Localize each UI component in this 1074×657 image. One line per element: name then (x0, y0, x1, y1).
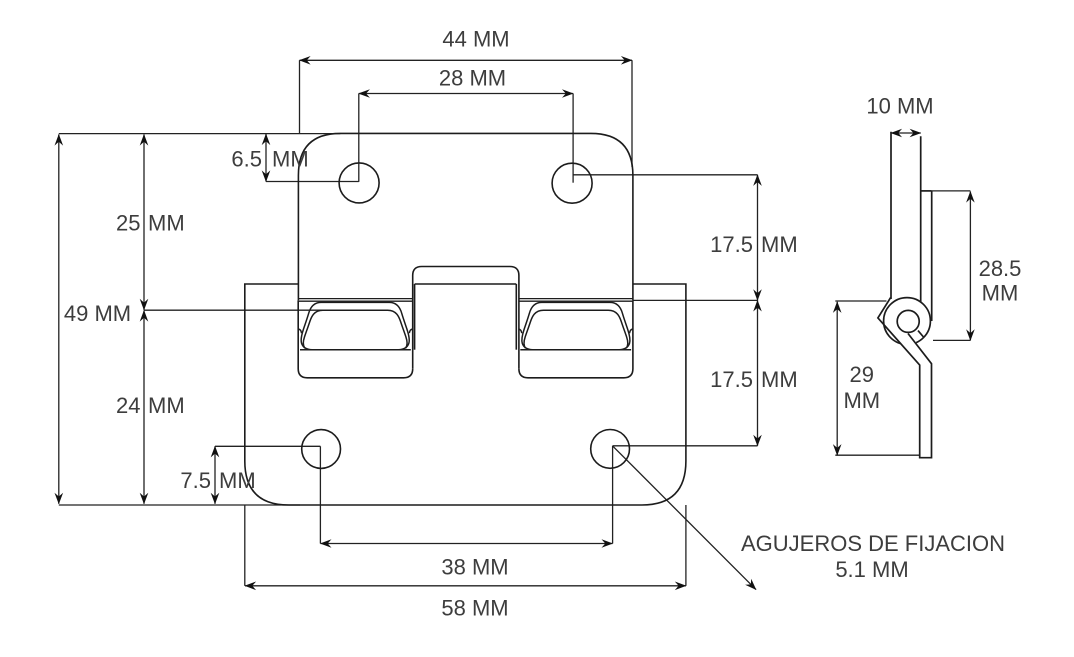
svg-text:MM: MM (761, 367, 798, 392)
svg-text:MM: MM (219, 468, 256, 493)
svg-text:5.1 MM: 5.1 MM (835, 557, 908, 582)
svg-text:24: 24 (116, 393, 140, 418)
svg-text:44 MM: 44 MM (442, 27, 509, 52)
svg-text:25: 25 (116, 211, 140, 236)
svg-text:AGUJEROS DE FIJACION: AGUJEROS DE FIJACION (741, 531, 1005, 556)
svg-text:49 MM: 49 MM (64, 301, 131, 326)
svg-text:MM: MM (148, 393, 185, 418)
svg-text:28.5: 28.5 (979, 256, 1022, 281)
svg-text:38 MM: 38 MM (441, 555, 508, 580)
svg-text:17.5: 17.5 (710, 232, 753, 257)
svg-text:29: 29 (850, 362, 874, 387)
svg-text:MM: MM (761, 232, 798, 257)
svg-text:58 MM: 58 MM (441, 596, 508, 621)
svg-text:6.5: 6.5 (231, 146, 262, 171)
svg-text:MM: MM (843, 388, 880, 413)
svg-text:7.5: 7.5 (180, 468, 211, 493)
svg-text:28 MM: 28 MM (439, 66, 506, 91)
svg-text:MM: MM (148, 211, 185, 236)
svg-text:MM: MM (982, 281, 1019, 306)
svg-text:MM: MM (272, 146, 309, 171)
svg-text:17.5: 17.5 (710, 367, 753, 392)
svg-text:10 MM: 10 MM (866, 94, 933, 119)
